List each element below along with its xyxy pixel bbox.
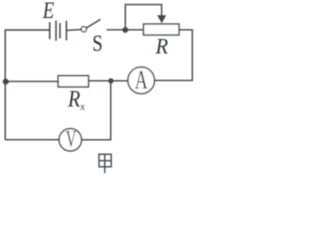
svg-text:E: E xyxy=(42,0,54,23)
svg-text:V: V xyxy=(66,126,77,151)
svg-text:A: A xyxy=(135,65,148,94)
svg-text:x: x xyxy=(79,101,85,113)
svg-text:S: S xyxy=(92,31,103,56)
svg-text:R: R xyxy=(67,87,80,112)
svg-text:R: R xyxy=(155,33,169,58)
